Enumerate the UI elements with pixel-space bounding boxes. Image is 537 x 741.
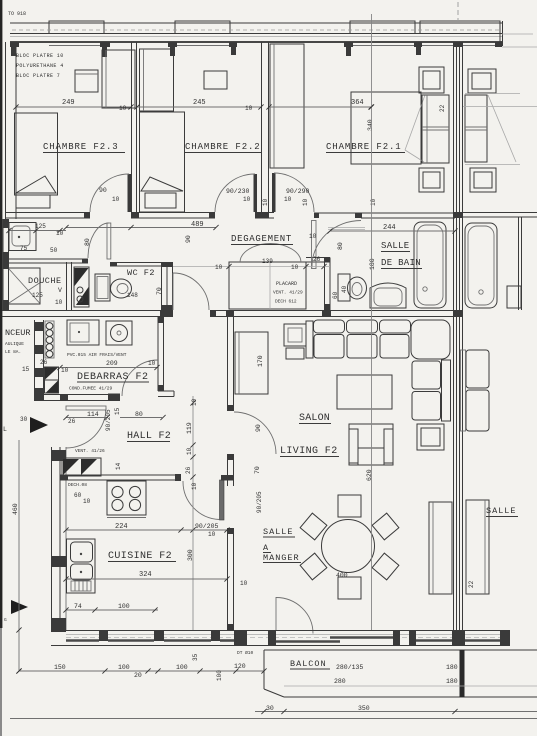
neighbour bathtub bbox=[465, 223, 497, 308]
svg-text:100: 100 bbox=[118, 603, 130, 610]
489 dim bbox=[66, 227, 216, 229]
svg-text:10: 10 bbox=[262, 198, 269, 206]
svg-text:119: 119 bbox=[186, 422, 193, 434]
svg-text:300: 300 bbox=[187, 549, 194, 561]
svg-text:80: 80 bbox=[84, 238, 91, 246]
svg-text:120: 120 bbox=[234, 663, 246, 670]
svg-text:70: 70 bbox=[156, 287, 163, 295]
F2.1 wardrobe bbox=[270, 44, 304, 168]
svg-text:SALLE: SALLE bbox=[381, 241, 410, 251]
svg-text:10: 10 bbox=[245, 105, 253, 112]
chambre F2.1 door leaf+arc bbox=[272, 173, 276, 212]
bottom scan line bbox=[10, 718, 537, 720]
salon end table bbox=[417, 424, 444, 450]
svg-text:CHAMBRE F2.2: CHAMBRE F2.2 bbox=[185, 142, 261, 152]
top wall inner face bbox=[10, 41, 502, 43]
cuisine cooktop bbox=[107, 481, 146, 515]
pier stubs below top wall bbox=[10, 42, 502, 57]
svg-text:VENT. 41/26: VENT. 41/26 bbox=[75, 448, 105, 454]
dim line y107 bbox=[16, 106, 131, 108]
svg-text:DE BAIN: DE BAIN bbox=[381, 258, 421, 268]
svg-text:30: 30 bbox=[20, 416, 28, 423]
salle de bain west wall bbox=[324, 258, 326, 311]
svg-text:DT Ø10: DT Ø10 bbox=[237, 649, 254, 656]
svg-text:20: 20 bbox=[134, 672, 142, 679]
svg-text:10: 10 bbox=[208, 531, 216, 538]
salon L-sofa corner bbox=[411, 320, 450, 359]
top wall window head bump 2 bbox=[175, 21, 230, 34]
svg-text:G: G bbox=[4, 617, 7, 623]
neighbour salon sofa bbox=[466, 350, 489, 388]
svg-text:LE 8A.: LE 8A. bbox=[5, 349, 21, 355]
svg-text:MANGER: MANGER bbox=[263, 553, 300, 563]
left exterior wall middle (lobby/douche) bbox=[2, 219, 4, 310]
svg-text:WC F2: WC F2 bbox=[127, 268, 155, 278]
svg-text:LIVING F2: LIVING F2 bbox=[280, 446, 338, 457]
balcony divider wall bbox=[460, 650, 465, 697]
svg-text:10: 10 bbox=[291, 264, 299, 271]
top wall window head bump 1 bbox=[49, 21, 104, 34]
douche/WC divider wall bbox=[66, 262, 68, 310]
svg-text:10: 10 bbox=[215, 264, 223, 271]
svg-text:114: 114 bbox=[87, 411, 99, 418]
F2.1 night stand top bbox=[419, 67, 444, 93]
F2.3 window table bbox=[75, 70, 98, 92]
cuisine dims bbox=[66, 529, 227, 531]
svg-text:22: 22 bbox=[468, 580, 475, 588]
lobby texts bbox=[9, 230, 66, 232]
svg-text:10: 10 bbox=[284, 196, 292, 203]
SaM french door leaf+arc bbox=[275, 597, 277, 631]
hall top wall / debarras bottom wall bbox=[34, 394, 120, 396]
svg-text:10: 10 bbox=[56, 230, 64, 237]
svg-text:90: 90 bbox=[255, 424, 262, 432]
svg-text:90/205: 90/205 bbox=[256, 491, 263, 513]
svg-text:245: 245 bbox=[193, 99, 206, 107]
salon armchair bbox=[349, 424, 393, 465]
svg-text:BLOC PLATRE 7: BLOC PLATRE 7 bbox=[16, 73, 60, 79]
left exterior wall upper bbox=[5, 42, 7, 219]
faint scan tails top right bbox=[502, 33, 533, 35]
salon L-sofa backrest top bbox=[306, 321, 313, 358]
svg-text:10: 10 bbox=[240, 580, 248, 587]
salon west wall upper bbox=[227, 310, 229, 411]
svg-text:90/230: 90/230 bbox=[226, 188, 250, 195]
svg-text:170: 170 bbox=[257, 355, 264, 367]
top wall inner lines bbox=[10, 33, 502, 35]
neighbour night stands / couch bbox=[468, 69, 496, 93]
chambers bottom wall y=212..218 bbox=[5, 213, 455, 230]
svg-text:15: 15 bbox=[22, 366, 30, 373]
placard door swing arcs bbox=[240, 244, 271, 263]
svg-text:90/205: 90/205 bbox=[195, 523, 219, 530]
wall between chambre F2.3 / F2.2 bbox=[131, 42, 133, 212]
svg-text:364: 364 bbox=[351, 99, 364, 107]
dining chairs bbox=[338, 495, 361, 517]
hall vertical chain bbox=[192, 396, 194, 630]
neighbour bathroom west wall bbox=[518, 217, 520, 310]
svg-text:60: 60 bbox=[332, 291, 339, 299]
svg-text:BLOC PLATRE 10: BLOC PLATRE 10 bbox=[16, 53, 64, 59]
top wall window head bump 3 bbox=[350, 21, 415, 34]
debarras door arc bbox=[122, 360, 158, 396]
salon L-sofa seat cushions top bbox=[314, 335, 344, 359]
debarras washer bbox=[106, 321, 132, 345]
svg-text:10: 10 bbox=[243, 196, 251, 203]
svg-text:10: 10 bbox=[112, 196, 120, 203]
svg-text:340: 340 bbox=[367, 119, 374, 131]
SdB washbasin vanity bbox=[370, 283, 406, 308]
svg-text:15: 15 bbox=[114, 407, 121, 415]
svg-text:DECH.08: DECH.08 bbox=[68, 482, 87, 488]
svg-text:SALLE: SALLE bbox=[263, 527, 294, 537]
svg-text:35: 35 bbox=[192, 653, 199, 661]
debarras flue hatched blocks bbox=[45, 367, 59, 380]
svg-text:125: 125 bbox=[35, 223, 46, 230]
window sills top bbox=[49, 45, 104, 47]
svg-text:400: 400 bbox=[336, 572, 348, 579]
F2.2 bed bbox=[140, 112, 185, 212]
svg-text:L: L bbox=[3, 426, 7, 433]
svg-text:DOUCHE: DOUCHE bbox=[28, 276, 62, 286]
F2.2 window table bbox=[204, 71, 227, 89]
placard rect bbox=[229, 262, 306, 309]
svg-text:PVC.015 AIR FRAIS/VENT: PVC.015 AIR FRAIS/VENT bbox=[67, 352, 127, 358]
svg-text:90: 90 bbox=[99, 187, 107, 194]
svg-text:74: 74 bbox=[74, 603, 82, 610]
WC door leaf+arc bbox=[107, 223, 111, 259]
svg-text:10: 10 bbox=[148, 360, 156, 367]
salon west wall mid bbox=[227, 454, 229, 486]
svg-text:280: 280 bbox=[334, 678, 346, 685]
svg-text:150: 150 bbox=[54, 664, 66, 671]
F2.3 bed bbox=[15, 113, 58, 195]
svg-text:139: 139 bbox=[262, 258, 273, 265]
svg-text:CUISINE F2: CUISINE F2 bbox=[108, 551, 172, 562]
cuisine/salle-a-manger wall lower bbox=[227, 528, 229, 630]
svg-text:10: 10 bbox=[55, 299, 63, 306]
debarras east wall bbox=[157, 317, 159, 391]
svg-text:CHAMBRE F2.3: CHAMBRE F2.3 bbox=[43, 142, 119, 152]
svg-text:SALON: SALON bbox=[299, 413, 330, 424]
svg-text:26: 26 bbox=[40, 359, 48, 366]
svg-text:10: 10 bbox=[83, 498, 91, 505]
svg-text:10: 10 bbox=[309, 233, 317, 240]
SdB toilet bbox=[338, 274, 350, 301]
party wall right (double stud) bbox=[453, 44, 455, 630]
facade piers/mullions bbox=[99, 630, 108, 641]
svg-text:BALCON: BALCON bbox=[290, 659, 327, 669]
svg-text:DEBARRAS F2: DEBARRAS F2 bbox=[77, 372, 149, 383]
top exterior wall: outer face bbox=[10, 22, 502, 24]
dining table bbox=[322, 520, 375, 573]
stairwell wall left (below debarras) bbox=[34, 320, 36, 397]
salle de bain door leaf + arc bbox=[312, 221, 317, 269]
svg-text:100: 100 bbox=[118, 664, 130, 671]
left vertical chain bbox=[18, 440, 20, 671]
chambre F2.3 door leaf+arc bbox=[128, 174, 132, 212]
svg-text:AULIQUE: AULIQUE bbox=[5, 341, 24, 347]
salle de bain bathtub bbox=[414, 222, 446, 308]
F2.1 bed bbox=[351, 92, 421, 164]
debarras hooks column bbox=[45, 321, 54, 358]
salon small table bbox=[284, 324, 306, 346]
svg-text:VENT. 41/29: VENT. 41/29 bbox=[273, 290, 303, 296]
svg-text:180: 180 bbox=[369, 258, 376, 270]
244 dim SdB bbox=[330, 230, 455, 232]
svg-text:460: 460 bbox=[12, 503, 19, 515]
WC toilet bbox=[95, 274, 110, 301]
F2.3 wardrobe bbox=[102, 50, 135, 108]
svg-text:100: 100 bbox=[216, 670, 223, 681]
svg-text:80: 80 bbox=[135, 411, 143, 418]
svg-text:80: 80 bbox=[337, 242, 344, 250]
svg-text:HALL F2: HALL F2 bbox=[127, 431, 171, 442]
svg-text:A: A bbox=[263, 543, 269, 553]
svg-text:125: 125 bbox=[32, 292, 43, 299]
svg-text:224: 224 bbox=[115, 523, 128, 531]
svg-text:90: 90 bbox=[185, 235, 192, 243]
svg-text:10: 10 bbox=[302, 198, 309, 206]
F2.1 couch at wall bbox=[422, 95, 449, 163]
lower arrow left bbox=[11, 600, 28, 614]
svg-text:10: 10 bbox=[61, 367, 69, 374]
vertical axis line x371 bbox=[371, 14, 373, 630]
facade bottom band bbox=[51, 630, 510, 632]
svg-text:TO 918: TO 918 bbox=[8, 11, 26, 17]
degagement door arc (from hall) bbox=[173, 273, 209, 310]
vent duct column (hatched) bbox=[74, 267, 89, 307]
svg-text:NCEUR: NCEUR bbox=[5, 328, 31, 338]
svg-text:180: 180 bbox=[446, 678, 458, 685]
svg-text:26: 26 bbox=[185, 466, 192, 474]
svg-text:10: 10 bbox=[186, 447, 193, 455]
svg-text:244: 244 bbox=[383, 224, 396, 232]
svg-text:POLYURETHANE 4: POLYURETHANE 4 bbox=[16, 63, 64, 69]
svg-text:SALLE: SALLE bbox=[486, 506, 517, 516]
svg-text:V: V bbox=[58, 287, 62, 294]
svg-text:90/205: 90/205 bbox=[105, 409, 112, 431]
lobby south wall (douche/WC top) bbox=[5, 258, 88, 260]
neighbour washbasin partial bbox=[507, 286, 521, 308]
svg-text:22: 22 bbox=[439, 104, 446, 112]
svg-text:50: 50 bbox=[50, 247, 58, 254]
F2.1 night stand bottom bbox=[419, 168, 444, 192]
svg-text:40: 40 bbox=[341, 285, 348, 293]
F2.2 wardrobe bbox=[140, 49, 174, 111]
chambre F2.2 door leaf+arc bbox=[254, 174, 258, 212]
svg-text:148: 148 bbox=[127, 292, 138, 299]
svg-text:70: 70 bbox=[254, 466, 261, 474]
WC east wall / corridor bbox=[161, 262, 163, 310]
svg-text:DECH 612: DECH 612 bbox=[275, 299, 297, 305]
svg-text:10: 10 bbox=[119, 105, 127, 112]
svg-text:280/135: 280/135 bbox=[336, 664, 363, 671]
cupboard at party wall (SaM) bbox=[429, 502, 452, 594]
top wall end cap right bbox=[499, 21, 501, 46]
svg-text:26: 26 bbox=[313, 256, 321, 263]
top wall window head bump 4 bbox=[420, 21, 500, 34]
debarras sink unit bbox=[67, 320, 99, 345]
svg-text:620: 620 bbox=[366, 469, 373, 481]
svg-text:10: 10 bbox=[191, 482, 198, 490]
svg-text:PLACARD: PLACARD bbox=[276, 281, 297, 287]
svg-text:350: 350 bbox=[358, 705, 370, 712]
cuisine vent box bbox=[62, 458, 101, 476]
svg-text:75: 75 bbox=[20, 245, 28, 252]
cuisine sink unit bbox=[67, 539, 96, 593]
svg-text:14: 14 bbox=[115, 462, 122, 470]
long wall band y=310..317 bbox=[2, 310, 173, 312]
lobby washbasin bbox=[9, 223, 36, 251]
salon L-sofa vertical cushions bbox=[412, 361, 441, 389]
cuisine left exterior wall bbox=[51, 447, 53, 631]
svg-text:90/290: 90/290 bbox=[286, 188, 310, 195]
neighbour chamber bottom wall bbox=[463, 212, 537, 214]
neighbour SaM cupboard bbox=[466, 500, 489, 594]
douche shower tray bbox=[9, 268, 41, 304]
entrance door leaf+arc bbox=[66, 406, 106, 410]
wall between chambre F2.2 / F2.1 bbox=[261, 42, 263, 212]
svg-text:DEGAGEMENT: DEGAGEMENT bbox=[231, 234, 292, 244]
svg-text:30: 30 bbox=[266, 705, 274, 712]
salon door arc bbox=[234, 412, 276, 454]
svg-text:CHAMBRE F2.1: CHAMBRE F2.1 bbox=[326, 142, 402, 152]
salon sideboard bbox=[235, 332, 268, 394]
scan left edge bar bbox=[0, 0, 2, 628]
entrance arrow bbox=[30, 417, 48, 433]
svg-text:489: 489 bbox=[191, 221, 204, 229]
svg-text:249: 249 bbox=[62, 99, 75, 107]
svg-text:COND.FUMEE 41/29: COND.FUMEE 41/29 bbox=[69, 386, 113, 392]
svg-text:10: 10 bbox=[191, 398, 198, 406]
cuisine door leaf+arc bbox=[220, 480, 225, 520]
salon coffee table bbox=[337, 375, 392, 409]
hall bottom / cuisine top wall bbox=[60, 474, 181, 476]
top wall dashed axis line bbox=[12, 29, 502, 31]
balcony slab bbox=[264, 649, 537, 651]
bottom dim chain bbox=[19, 670, 264, 672]
svg-text:60: 60 bbox=[74, 492, 82, 499]
svg-text:324: 324 bbox=[139, 571, 152, 579]
svg-text:26: 26 bbox=[68, 418, 76, 425]
svg-text:100: 100 bbox=[176, 664, 188, 671]
svg-text:180: 180 bbox=[446, 664, 458, 671]
svg-text:209: 209 bbox=[106, 360, 118, 367]
